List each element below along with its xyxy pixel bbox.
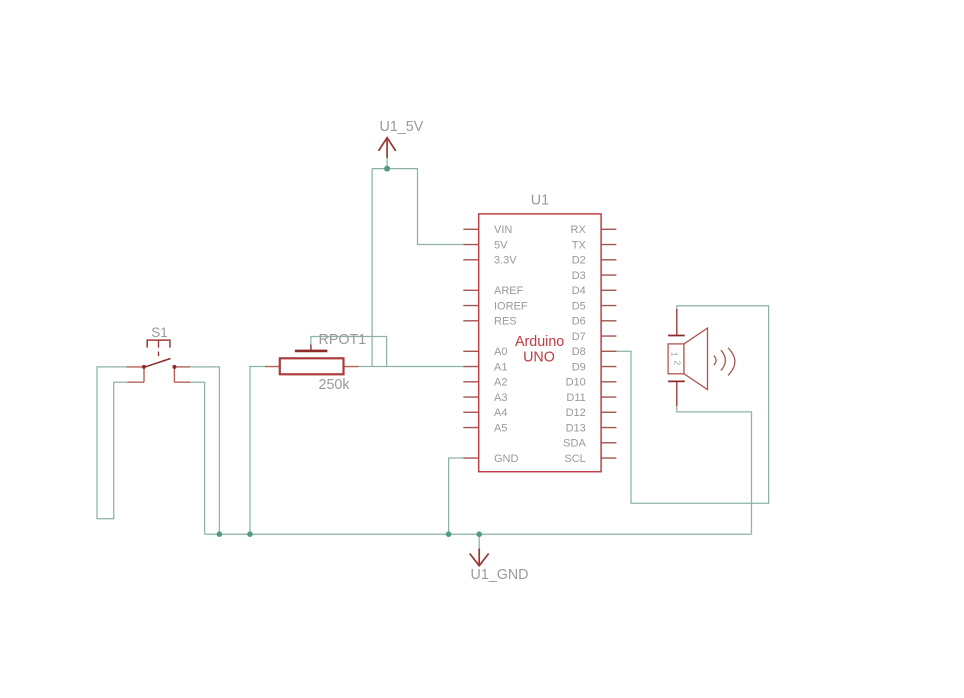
- svg-text:U1_5V: U1_5V: [380, 119, 424, 135]
- wire: RPOT1 left terminal down to ground rail: [250, 367, 265, 535]
- svg-text:U1: U1: [531, 193, 549, 209]
- U1 left pin labels: [494, 224, 528, 465]
- svg-text:SDA: SDA: [563, 438, 586, 450]
- svg-text:SCL: SCL: [564, 453, 585, 465]
- svg-text:D3: D3: [572, 270, 586, 282]
- svg-text:AREF: AREF: [494, 285, 524, 297]
- wire: U1_5V arrow stem: [386, 158, 388, 169]
- junction dot: S1 right wire on ground rail: [217, 531, 223, 537]
- wire: ground rail tap to U1_GND arrow: [478, 534, 480, 550]
- svg-text:D9: D9: [572, 361, 586, 373]
- RPOT1 pin stubs: [265, 366, 359, 368]
- svg-text:D5: D5: [572, 300, 586, 312]
- svg-text:1: 1: [670, 352, 679, 357]
- svg-text:RX: RX: [571, 224, 587, 236]
- S1 contact dots: [142, 365, 146, 369]
- wire: S1 upper-left pin loop to lower-left pin: [97, 367, 128, 519]
- S1 dashed actuator link: [158, 340, 160, 360]
- speaker bottom pin: [676, 381, 678, 406]
- svg-text:A0: A0: [494, 346, 507, 358]
- U1 right pin stubs: [601, 229, 616, 458]
- RPOT1 wiper bar: [295, 350, 328, 353]
- svg-text:D12: D12: [566, 407, 586, 419]
- svg-text:A4: A4: [494, 407, 507, 419]
- speaker top terminal cap: [668, 335, 685, 337]
- svg-text:RPOT1: RPOT1: [319, 332, 367, 348]
- net label U1_5V: [380, 119, 424, 135]
- svg-text:D6: D6: [572, 316, 586, 328]
- potentiometer RPOT1: [265, 332, 366, 393]
- junction dot at U1_5V node: [384, 166, 390, 172]
- U1 right pin labels: [563, 224, 586, 465]
- svg-text:S1: S1: [151, 325, 168, 340]
- svg-text:A5: A5: [494, 422, 507, 434]
- svg-text:D4: D4: [572, 285, 586, 297]
- svg-text:U1_GND: U1_GND: [471, 567, 529, 583]
- svg-text:Arduino: Arduino: [515, 334, 564, 350]
- wire: U1 pin D8 around to speaker top terminal: [616, 306, 769, 504]
- wire: S1 lower-right pin down to ground rail: [190, 382, 205, 534]
- U1 body: [479, 214, 601, 472]
- U1 part name label: [515, 334, 564, 365]
- IC U1 (Arduino UNO module): [463, 193, 616, 472]
- switch S1: [127, 325, 191, 382]
- svg-text:D8: D8: [572, 346, 586, 358]
- RPOT1 body: [280, 358, 344, 374]
- wire: ground rail: [205, 533, 752, 535]
- svg-text:RES: RES: [494, 316, 517, 328]
- svg-text:GND: GND: [494, 453, 519, 465]
- speaker bottom terminal cap: [668, 380, 685, 382]
- wire: speaker bottom terminal to ground rail: [677, 404, 752, 534]
- svg-text:D7: D7: [572, 331, 586, 343]
- S1 actuator bracket: [147, 340, 170, 348]
- speaker top pin: [676, 309, 678, 336]
- wire: RPOT1 right terminal to U1 pin A1: [358, 366, 463, 368]
- U1 left pin stubs: [463, 229, 478, 458]
- svg-text:250k: 250k: [319, 377, 351, 393]
- power symbol U1_5V (arrow up): [379, 138, 396, 158]
- wire: U1_5V node down to A1 net: [371, 169, 373, 367]
- svg-text:IOREF: IOREF: [494, 300, 528, 312]
- speaker horn: [684, 328, 708, 389]
- svg-text:UNO: UNO: [523, 350, 555, 366]
- junction dot: RPOT1 wire on ground rail: [247, 531, 253, 537]
- svg-text:VIN: VIN: [494, 224, 512, 236]
- svg-text:D11: D11: [566, 392, 585, 404]
- wire: U1 pin GND down to ground rail: [449, 458, 464, 534]
- junction dot: U1_GND arrow on ground rail: [476, 531, 482, 537]
- svg-text:3.3V: 3.3V: [494, 255, 517, 267]
- wire: U1_5V node to U1 pin 5V: [372, 169, 463, 245]
- S1 pin stubs: [127, 367, 191, 382]
- svg-text:D10: D10: [566, 377, 586, 389]
- ground symbol U1_GND (arrow down): [470, 549, 489, 566]
- S1 lever: [144, 359, 171, 368]
- svg-text:2: 2: [673, 361, 682, 366]
- svg-text:A3: A3: [494, 392, 507, 404]
- RPOT1 wiper stem: [310, 345, 312, 351]
- speaker sound waves: [714, 348, 735, 376]
- net label U1_GND: [471, 567, 529, 583]
- svg-text:TX: TX: [572, 239, 587, 251]
- speaker LS1: [668, 309, 735, 406]
- svg-text:A2: A2: [494, 377, 507, 389]
- svg-text:D2: D2: [572, 255, 586, 267]
- svg-text:5V: 5V: [494, 239, 508, 251]
- svg-text:D13: D13: [566, 422, 586, 434]
- junction dot: U1 GND wire on ground rail: [446, 531, 452, 537]
- wire: S1 upper-right pin down to ground rail: [190, 367, 220, 534]
- wire: RPOT1 wiper up and over to A1 net: [311, 337, 387, 367]
- speaker body: [668, 344, 684, 374]
- svg-text:A1: A1: [494, 361, 507, 373]
